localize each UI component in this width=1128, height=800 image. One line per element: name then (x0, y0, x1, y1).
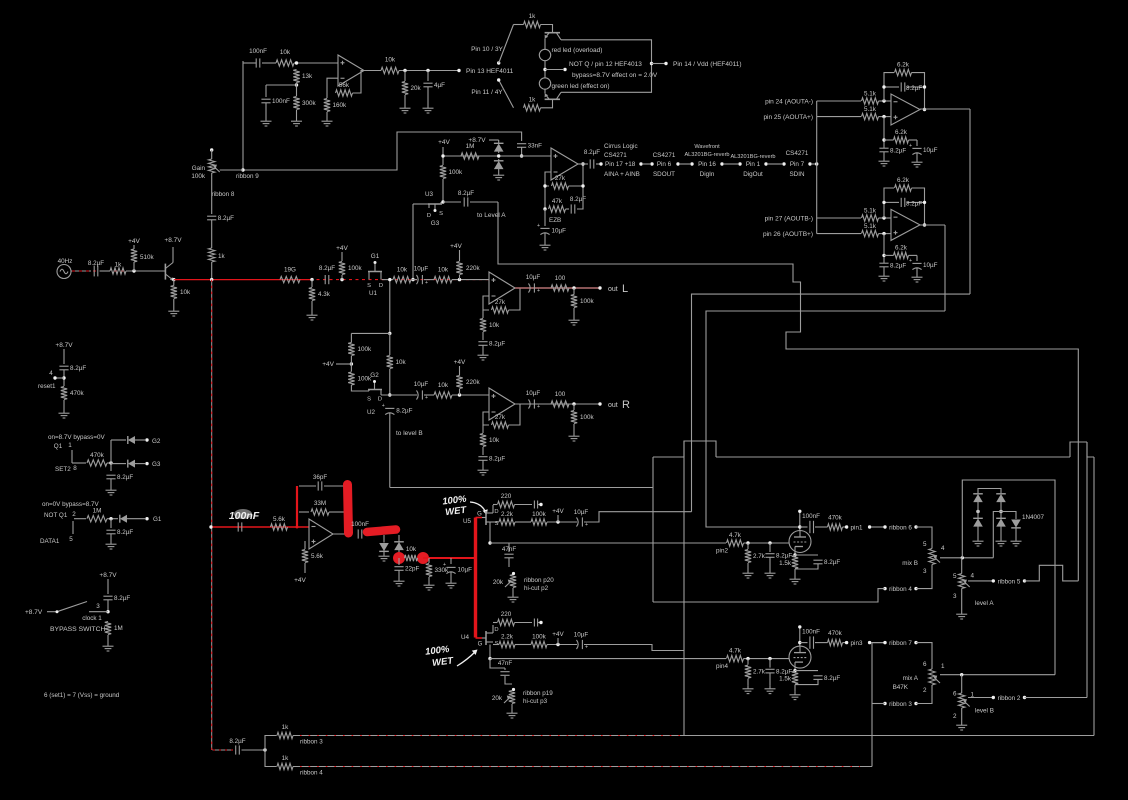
terminal (764, 162, 767, 165)
diode clamp upper (494, 144, 504, 152)
wire (544, 233, 546, 242)
svg-text:2: 2 (953, 713, 957, 720)
diode G1 (120, 515, 127, 523)
wire (498, 159, 500, 161)
wire (470, 201, 498, 203)
svg-text:1k: 1k (529, 97, 537, 104)
svg-text:220: 220 (501, 611, 512, 618)
wire (493, 521, 499, 523)
svg-text:S: S (367, 397, 371, 403)
capacitor 10uF EZB (540, 227, 549, 229)
terminal (808, 162, 811, 165)
resistor 100k upper (348, 343, 354, 356)
svg-text:+: + (585, 522, 588, 528)
svg-text:8.2µF: 8.2µF (319, 265, 335, 272)
ground (482, 467, 484, 470)
wire (916, 140, 918, 146)
svg-text:47nF: 47nF (498, 660, 513, 667)
svg-text:10µF: 10µF (574, 632, 589, 639)
node (923, 223, 926, 226)
capacitor 8.2uF (478, 341, 487, 343)
terminal AINA (599, 162, 602, 165)
svg-text:Pin 1: Pin 1 (746, 161, 761, 168)
svg-text:L: L (622, 283, 628, 295)
wire (879, 100, 892, 102)
svg-text:4: 4 (941, 545, 945, 552)
node (458, 278, 461, 281)
wire ribbon4 long (293, 766, 872, 768)
wire (544, 61, 546, 78)
wire hop right (1070, 442, 1087, 457)
wire (724, 163, 738, 165)
potentiometer mix A (929, 669, 935, 685)
ground (450, 580, 452, 583)
ground (427, 105, 429, 108)
resistor 100k (571, 295, 577, 308)
wire plate (799, 512, 801, 531)
svg-text:3: 3 (953, 593, 957, 600)
terminal out L (598, 286, 601, 289)
wire (211, 173, 213, 214)
wire (383, 535, 385, 543)
svg-text:D: D (494, 627, 498, 633)
svg-text:1k: 1k (218, 253, 226, 260)
resistor 2.2k (499, 641, 515, 647)
svg-text:8.2µF: 8.2µF (117, 474, 133, 481)
node (388, 393, 391, 396)
wire bus ribbon6 (706, 311, 945, 527)
op-amp U-B (AOUTB) (891, 209, 920, 240)
wire (569, 164, 584, 186)
resistor 1k (209, 248, 215, 262)
node (999, 510, 1002, 513)
wire ribbon3 up right (1093, 457, 1095, 736)
resistor 56k feedback (336, 90, 353, 96)
wire (242, 749, 266, 751)
wire (512, 588, 514, 594)
wire (544, 186, 546, 209)
terminal (883, 641, 886, 644)
wire pin2 row (490, 542, 726, 544)
svg-text:Pin 11 / 4Y: Pin 11 / 4Y (471, 89, 503, 96)
terminal (798, 510, 801, 513)
wire (1025, 697, 1088, 699)
resistor 33M (311, 509, 329, 515)
node (798, 525, 801, 528)
terminal (782, 162, 785, 165)
wire (110, 440, 112, 471)
svg-text:1k: 1k (115, 262, 123, 269)
ground (110, 487, 112, 490)
red wire gate bus (474, 518, 477, 638)
wire (211, 262, 213, 280)
wire (442, 179, 444, 202)
capacitor 10uF out (529, 283, 531, 292)
wire (769, 673, 771, 686)
wire (557, 515, 559, 522)
svg-text:47nF: 47nF (502, 546, 517, 553)
svg-text:100nF: 100nF (802, 629, 820, 636)
terminal (883, 702, 886, 705)
svg-text:5.1k: 5.1k (864, 91, 877, 98)
svg-text:+: + (909, 143, 912, 149)
resistor 1k lower (524, 105, 541, 111)
wire (817, 217, 861, 219)
resistor 1M (87, 516, 107, 522)
svg-text:+8.7V: +8.7V (164, 237, 182, 244)
svg-text:pin 26 (AOUTB+): pin 26 (AOUTB+) (763, 231, 813, 238)
resistor 10k (434, 276, 452, 282)
resistor 6.2k fb (895, 69, 912, 75)
resistor 5.6k (302, 550, 308, 563)
svg-text:510k: 510k (140, 254, 155, 261)
wire ribbon 9 run (243, 132, 522, 170)
node Vdd (650, 62, 653, 65)
wire (977, 526, 979, 539)
svg-text:10µF: 10µF (923, 262, 938, 269)
svg-text:100k: 100k (449, 169, 464, 176)
ground (326, 118, 328, 121)
wire (883, 117, 885, 148)
svg-text:pin1: pin1 (851, 525, 863, 532)
svg-text:AINA + AINB: AINA + AINB (604, 171, 640, 178)
node (350, 362, 353, 365)
ground (747, 570, 749, 573)
wire (107, 600, 109, 612)
wire bus 457 main (716, 456, 1070, 458)
terminal (914, 641, 917, 644)
svg-text:clock 1: clock 1 (82, 615, 102, 622)
svg-text:100nF: 100nF (272, 98, 290, 105)
wire (71, 270, 91, 272)
wire (459, 366, 461, 376)
wire (262, 62, 276, 64)
svg-text:100k: 100k (532, 634, 547, 641)
terminal 4 (53, 376, 56, 379)
capacitor 8.2uF fb (570, 204, 572, 213)
svg-text:ribbon 8: ribbon 8 (212, 191, 235, 198)
svg-text:10k: 10k (396, 359, 407, 366)
wire (482, 346, 484, 353)
resistor 100 (551, 285, 569, 291)
svg-text:ribbon 6: ribbon 6 (889, 525, 912, 532)
capacitor 47nF p19 (500, 671, 509, 673)
svg-text:mix A: mix A (903, 675, 919, 682)
wire (800, 526, 808, 528)
svg-text:8.2µF: 8.2µF (906, 85, 922, 92)
ground (1000, 538, 1002, 541)
svg-text:G3: G3 (431, 220, 440, 227)
wire (389, 369, 391, 395)
terminal (868, 525, 871, 528)
svg-text:6: 6 (923, 661, 927, 668)
wire out R (515, 403, 600, 405)
svg-text:SDIN: SDIN (789, 171, 804, 178)
svg-text:ribbon 4: ribbon 4 (300, 770, 323, 777)
wire (538, 504, 540, 506)
terminal (650, 162, 653, 165)
ground (544, 242, 546, 245)
wire feedback (483, 296, 489, 310)
terminal (539, 503, 542, 506)
svg-text:27k: 27k (495, 414, 506, 421)
capacitor 8.2uF set2 (106, 474, 115, 476)
resistor 2.2k (499, 519, 515, 525)
resistor 10k (480, 319, 486, 332)
node (458, 393, 461, 396)
wire (110, 479, 112, 487)
diode 1N4007 b1 (996, 494, 1006, 502)
svg-text:8.2µF: 8.2µF (117, 529, 133, 536)
node (411, 278, 414, 281)
svg-text:4µF: 4µF (434, 82, 445, 89)
diode 1N4007 c (1011, 520, 1021, 528)
svg-text:100k: 100k (348, 265, 363, 272)
svg-text:6 (set1) = 7 (Vss) = ground: 6 (set1) = 7 (Vss) = ground (44, 692, 120, 699)
svg-text:1M: 1M (114, 625, 123, 632)
resistor 10k (393, 276, 411, 282)
wire feedback loop (884, 188, 894, 218)
terminal (845, 641, 848, 644)
svg-text:8.2µF: 8.2µF (489, 341, 505, 348)
wire (411, 279, 417, 281)
red marker horizontal stroke (367, 530, 396, 533)
svg-text:4.3k: 4.3k (318, 291, 331, 298)
svg-text:5: 5 (69, 536, 73, 543)
svg-text:G: G (477, 512, 482, 518)
wire (747, 659, 749, 665)
resistor 100k (531, 641, 547, 647)
capacitor 8.2uF (478, 456, 487, 458)
svg-text:out: out (608, 286, 618, 293)
capacitor 100nF wet (237, 522, 239, 531)
capacitor 8.2uF (765, 668, 774, 670)
resistor 300k (293, 97, 299, 110)
resistor 100k lower (348, 372, 354, 385)
ground (961, 611, 963, 614)
svg-text:+8.7V: +8.7V (468, 137, 486, 144)
node (388, 278, 391, 281)
svg-text:+4V: +4V (552, 508, 564, 515)
wire (504, 668, 506, 670)
svg-text:100k: 100k (358, 346, 373, 353)
node (340, 278, 343, 281)
wire (450, 558, 452, 564)
wire (351, 385, 369, 391)
wire (56, 377, 64, 379)
resistor 510k (131, 249, 137, 262)
svg-text:5.1k: 5.1k (864, 106, 877, 113)
terminal out R (598, 402, 601, 405)
wire (977, 501, 979, 508)
svg-text:4: 4 (971, 573, 975, 580)
svg-text:ribbon p19: ribbon p19 (523, 690, 553, 697)
svg-text:+4V: +4V (128, 238, 140, 245)
wire (817, 116, 861, 118)
ground (512, 594, 514, 597)
wire (916, 565, 932, 589)
wire ribbon5 hop (1025, 565, 1079, 581)
red dashes input (72, 270, 163, 272)
terminal (845, 525, 848, 528)
capacitor 8.2uF (765, 553, 774, 555)
svg-text:5.1k: 5.1k (864, 208, 877, 215)
node (815, 162, 818, 165)
wire (424, 394, 434, 396)
resistor 470k pin4 (828, 639, 843, 645)
diode 1N4007 a1 (973, 494, 983, 502)
svg-text:1k: 1k (529, 13, 537, 20)
svg-text:8.2µF: 8.2µF (458, 190, 474, 197)
resistor 5.1k (862, 98, 879, 104)
svg-text:5.6k: 5.6k (311, 553, 324, 560)
wire (547, 521, 577, 523)
svg-text:10k: 10k (385, 57, 396, 64)
svg-text:3: 3 (96, 603, 100, 610)
terminal (145, 438, 148, 441)
resistor 470k (61, 387, 67, 400)
resistor 27k fb (492, 422, 509, 428)
wire diagonal to 1k lower (499, 80, 514, 108)
wire (505, 676, 512, 684)
svg-text:8: 8 (73, 465, 77, 472)
node (882, 254, 885, 257)
capacitor 10uF (417, 275, 419, 284)
wire (326, 93, 328, 98)
node pin10 tap (497, 61, 500, 64)
ground (1015, 538, 1017, 541)
wire (324, 485, 345, 487)
wire (961, 558, 963, 574)
svg-text:ribbon 7: ribbon 7 (889, 640, 912, 647)
capacitor 8.2uF fb (900, 82, 902, 91)
ground (428, 582, 430, 585)
svg-text:19G: 19G (284, 267, 296, 274)
svg-text:G3: G3 (152, 461, 161, 468)
wire (399, 70, 459, 72)
wire (443, 201, 461, 203)
wire (577, 186, 583, 209)
svg-text:Wavefront: Wavefront (694, 144, 720, 150)
svg-text:R: R (622, 399, 630, 411)
wire (364, 533, 370, 535)
wire (557, 638, 559, 645)
node (132, 269, 135, 272)
wire (493, 504, 497, 506)
wire (747, 543, 749, 549)
arrow to U5 gate (470, 502, 486, 513)
resistor 1M (461, 153, 479, 159)
ground (977, 538, 979, 541)
wire (127, 518, 145, 520)
svg-text:10µF: 10µF (552, 228, 567, 235)
wire (493, 644, 499, 646)
capacitor 10uF U4 (577, 640, 579, 649)
terminal (1023, 696, 1026, 699)
ground (498, 172, 500, 175)
resistor 10k output (381, 67, 399, 73)
red marker dot (417, 552, 429, 564)
svg-text:6: 6 (953, 691, 957, 698)
wire bus 602 (653, 588, 878, 602)
wire (489, 645, 491, 659)
tube triode pin4 (789, 646, 811, 668)
svg-text:33M: 33M (314, 500, 326, 507)
svg-text:1.5k: 1.5k (779, 560, 792, 567)
capacitor 10uF out (529, 399, 531, 408)
svg-text:2: 2 (72, 511, 76, 518)
op-amp A3 out L (489, 272, 515, 304)
svg-text:NOT Q / pin 12 HEF4013: NOT Q / pin 12 HEF4013 (569, 61, 642, 68)
svg-text:10µF: 10µF (526, 390, 541, 397)
node (746, 541, 749, 544)
wire (1000, 526, 1002, 539)
resistor 5.1k (862, 215, 879, 221)
svg-text:8.2µF: 8.2µF (824, 559, 840, 566)
svg-text:hi-cut p2: hi-cut p2 (524, 585, 549, 592)
svg-text:1.5k: 1.5k (779, 676, 792, 683)
wire (521, 148, 523, 157)
wire (916, 153, 918, 159)
wire pin4 row (490, 658, 726, 660)
wire (884, 254, 894, 256)
wire (977, 508, 979, 518)
wire (107, 635, 109, 643)
terminal (539, 621, 542, 624)
node (882, 232, 885, 235)
svg-text:pin 25 (AOUTA+): pin 25 (AOUTA+) (763, 114, 813, 121)
svg-text:10µF: 10µF (574, 509, 589, 516)
capacitor 10uF U5 (577, 517, 579, 526)
svg-text:47k: 47k (552, 198, 563, 205)
wire level B bus (390, 487, 653, 489)
node (882, 138, 885, 141)
wire bus pin2 col (652, 457, 654, 602)
ground (511, 710, 513, 713)
wire (243, 62, 256, 64)
ground (794, 576, 796, 579)
capacitor 8.2uF out (589, 159, 591, 168)
resistor 4.3k (309, 288, 315, 301)
wire (63, 400, 65, 410)
wire pot wiper (220, 169, 243, 171)
terminal (639, 162, 642, 165)
wire (265, 103, 267, 118)
svg-text:8.2µF: 8.2µF (584, 149, 600, 156)
svg-text:4.7k: 4.7k (729, 532, 742, 539)
LED green (effect on) (539, 78, 550, 89)
node (488, 657, 491, 660)
wire (815, 642, 828, 644)
svg-text:100nF: 100nF (229, 510, 260, 522)
svg-text:8.2µF: 8.2µF (824, 675, 840, 682)
node (310, 278, 313, 281)
wire (843, 526, 846, 528)
wire (993, 512, 1016, 558)
wire (768, 163, 782, 165)
wire bus U5 to AOUTA (692, 294, 971, 512)
wire (459, 250, 461, 261)
capacitor 4uF (423, 82, 432, 84)
svg-text:100nF: 100nF (249, 48, 267, 55)
svg-text:1M: 1M (466, 143, 475, 150)
svg-text:S: S (439, 211, 443, 217)
wire (747, 563, 749, 570)
svg-text:+: + (382, 403, 385, 409)
wire pin1 (71, 450, 73, 463)
wire (794, 569, 796, 576)
wire hop (1087, 442, 1094, 457)
